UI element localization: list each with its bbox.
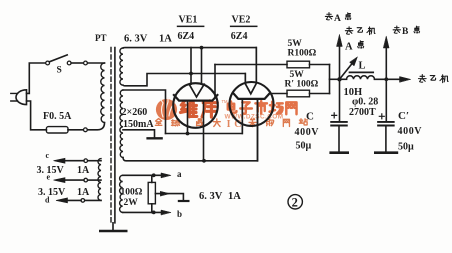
svg-text:5W: 5W xyxy=(290,70,305,80)
svg-text:2×260: 2×260 xyxy=(122,107,148,118)
junction dot xyxy=(202,159,206,163)
watermark big text 维库 xyxy=(180,101,196,117)
resistor R 100ohm 5W xyxy=(287,61,310,68)
transformer core xyxy=(110,48,112,223)
label 去乙机 (right) xyxy=(418,75,426,83)
svg-text:6Z4: 6Z4 xyxy=(231,31,248,42)
wire terminal to primary bottom xyxy=(87,123,104,130)
wire fuse to terminal xyxy=(68,129,84,131)
6.3V 1A winding bottom xyxy=(120,175,123,212)
switch S xyxy=(46,61,50,65)
resistor 100ohm 2W xyxy=(151,175,153,212)
wire terminal to primary xyxy=(87,62,104,64)
svg-text:6. 3V: 6. 3V xyxy=(124,34,148,45)
svg-text:L: L xyxy=(359,61,366,72)
label 去乙机 (top) xyxy=(345,27,353,34)
svg-text:6Z4: 6Z4 xyxy=(178,31,195,42)
wire HV bottom rail W2 xyxy=(123,99,258,161)
svg-text:e: e xyxy=(47,173,51,182)
label 去A点 xyxy=(325,13,332,20)
wire filament top rail xyxy=(123,48,256,83)
svg-text:1A: 1A xyxy=(77,187,90,198)
svg-text:C′: C′ xyxy=(398,110,409,122)
svg-text:B: B xyxy=(402,27,409,37)
svg-text:2W: 2W xyxy=(124,198,139,208)
circled 2 xyxy=(288,195,302,209)
wire VE2 plate to R-prime xyxy=(269,93,287,95)
svg-text:50µ: 50µ xyxy=(398,142,414,153)
svg-text:A: A xyxy=(334,14,341,24)
chassis bar xyxy=(179,200,189,202)
junction dot xyxy=(189,72,193,76)
label 点 of A点 xyxy=(358,41,364,48)
svg-text:1A: 1A xyxy=(228,191,241,202)
svg-text:R′ 100Ω: R′ 100Ω xyxy=(285,79,319,89)
svg-text:S: S xyxy=(57,66,62,76)
junction dot xyxy=(152,211,156,215)
svg-text:C: C xyxy=(306,110,314,122)
svg-text:VE1: VE1 xyxy=(179,15,198,26)
wire plug to switch xyxy=(27,63,46,93)
arrow up to 去B点 xyxy=(385,49,387,80)
wire switch to terminal xyxy=(71,62,84,64)
junction dot xyxy=(152,173,156,177)
svg-text:VE2: VE2 xyxy=(232,15,251,26)
wire choke to output xyxy=(375,78,402,80)
svg-text:PT: PT xyxy=(95,33,107,43)
svg-text:100Ω: 100Ω xyxy=(121,187,143,197)
svg-text:3. 15V: 3. 15V xyxy=(37,165,65,176)
tube VE2 6Z4 xyxy=(230,48,274,161)
junction dot xyxy=(384,77,388,81)
svg-text:d: d xyxy=(45,196,50,205)
svg-text:3. 15V: 3. 15V xyxy=(38,187,66,198)
junction dot xyxy=(186,132,190,136)
svg-text:A: A xyxy=(345,42,353,53)
fuse F0.5A xyxy=(46,127,68,133)
choke L 10H xyxy=(340,78,347,80)
svg-text:c: c xyxy=(46,151,50,160)
ground xyxy=(331,151,348,154)
6.3V filament winding top xyxy=(120,48,123,85)
arrow to A point label xyxy=(340,63,353,79)
svg-text:150mA: 150mA xyxy=(123,119,154,130)
wire tap d xyxy=(85,199,101,201)
svg-text:2: 2 xyxy=(292,195,298,209)
ground xyxy=(375,151,397,154)
wire HV top to plates rail xyxy=(123,90,166,134)
HV winding 2x260V xyxy=(120,90,123,158)
svg-text:1A: 1A xyxy=(159,34,172,45)
arrow 去乙机 right xyxy=(400,77,411,83)
label 去B点 xyxy=(393,26,400,33)
svg-text:1A: 1A xyxy=(77,165,90,176)
terminal xyxy=(84,61,88,65)
capacitor C 400V 50u xyxy=(339,79,341,121)
wire tap e xyxy=(88,179,102,181)
wire plate rail W1 xyxy=(166,99,243,134)
arrow up to 去乙机/去A点 xyxy=(339,46,341,80)
svg-text:2700T: 2700T xyxy=(349,107,376,118)
wire tap c xyxy=(88,160,101,162)
core ground xyxy=(112,223,114,230)
capacitor C' 400V 50u xyxy=(385,79,387,121)
svg-text:400V: 400V xyxy=(295,127,320,138)
junction dot xyxy=(200,46,204,50)
center tap to chassis xyxy=(155,194,183,200)
3.15V winding (taps c,e,d) xyxy=(98,159,101,201)
wire plug to fuse xyxy=(27,101,47,130)
wire filament lower rail xyxy=(123,74,245,86)
transformer primary winding xyxy=(101,63,105,123)
wire terminal a xyxy=(123,174,162,176)
svg-text:R100Ω: R100Ω xyxy=(288,49,317,59)
svg-text:b: b xyxy=(177,209,182,219)
wire terminal b xyxy=(123,211,162,213)
svg-text:F0. 5A: F0. 5A xyxy=(43,111,72,122)
svg-text:I: I xyxy=(227,119,231,130)
svg-text:400V: 400V xyxy=(398,126,423,137)
terminal xyxy=(84,128,88,132)
plus sign xyxy=(332,113,337,118)
plus sign xyxy=(379,114,384,119)
watermark logo circle xyxy=(156,97,177,120)
ground xyxy=(148,137,162,139)
wire joining resistors xyxy=(329,65,331,94)
tube VE1 6Z4 xyxy=(173,48,218,161)
svg-text:6. 3V: 6. 3V xyxy=(199,191,223,202)
plug P xyxy=(16,90,26,105)
svg-text:a: a xyxy=(177,169,182,179)
resistor R' 100ohm 5W xyxy=(287,90,310,97)
node A junction xyxy=(337,77,341,81)
HV center tap wire xyxy=(123,130,155,137)
watermark big text 电子市场网 xyxy=(228,101,237,112)
wire VE1 plate to R xyxy=(215,64,287,66)
watermark slogan row xyxy=(155,119,162,126)
svg-text:50µ: 50µ xyxy=(296,141,312,152)
